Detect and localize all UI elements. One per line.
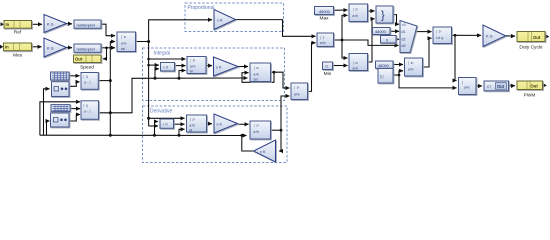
- svg-text:Integral: Integral: [154, 51, 171, 57]
- svg-text:a>b: a>b: [353, 14, 359, 18]
- svg-text:In: In: [5, 45, 9, 50]
- svg-text:⌠ z¹: ⌠ z¹: [436, 30, 441, 34]
- svg-text:d3: d3: [402, 44, 406, 48]
- svg-text:sel: sel: [121, 47, 125, 51]
- svg-text:a→□: a→□: [84, 81, 91, 85]
- svg-text:Out: Out: [497, 84, 505, 89]
- svg-text:⌠ z: ⌠ z: [320, 36, 325, 40]
- svg-text:a+b: a+b: [190, 124, 196, 128]
- svg-text:a+b: a+b: [190, 65, 196, 69]
- svg-text:K G: K G: [47, 23, 54, 27]
- svg-text:M: M: [190, 129, 193, 133]
- svg-text:sel: sel: [254, 78, 258, 82]
- svg-text:Out: Out: [533, 35, 541, 40]
- svg-text:PWM: PWM: [524, 93, 536, 99]
- svg-text:⌠ z¹: ⌠ z¹: [254, 124, 259, 128]
- svg-text:reinterpret: reinterpret: [77, 47, 96, 52]
- svg-text:d1: d1: [402, 30, 406, 34]
- svg-text:x K: x K: [216, 66, 222, 70]
- svg-text:Proportional: Proportional: [188, 5, 215, 11]
- svg-text:a>b: a>b: [121, 42, 127, 46]
- svg-text:⌠ z¹: ⌠ z¹: [190, 118, 195, 122]
- svg-text:⌠ z¹: ⌠ z¹: [121, 35, 126, 39]
- svg-text:⌠ q: ⌠ q: [83, 75, 88, 79]
- svg-text:Mes: Mes: [13, 53, 23, 59]
- svg-text:⌠ z¹: ⌠ z¹: [408, 61, 413, 65]
- svg-text:a+b: a+b: [294, 93, 300, 97]
- svg-text:K G: K G: [486, 35, 493, 39]
- svg-text:48000: 48000: [378, 63, 390, 68]
- svg-text:a>b: a>b: [408, 68, 414, 72]
- svg-text:⌠ z¹: ⌠ z¹: [294, 86, 299, 90]
- svg-text:Ref: Ref: [14, 30, 22, 36]
- svg-text:x K: x K: [260, 150, 266, 154]
- svg-text:C?: C?: [487, 85, 491, 89]
- svg-text:a+b: a+b: [254, 73, 260, 77]
- svg-text:Out: Out: [531, 83, 539, 88]
- svg-text:⌠ z¹: ⌠ z¹: [254, 66, 259, 70]
- svg-text:a>b: a>b: [464, 86, 470, 90]
- svg-text:x K: x K: [217, 123, 223, 127]
- svg-text:↗ rt: ↗ rt: [163, 66, 169, 70]
- svg-text:In: In: [6, 22, 10, 27]
- svg-text:⌠ z¹: ⌠ z¹: [190, 59, 195, 63]
- svg-text:⌠ z¹: ⌠ z¹: [353, 8, 358, 12]
- svg-text:48000: 48000: [319, 9, 331, 14]
- svg-text:⌠: ⌠: [462, 81, 464, 85]
- svg-text:x K: x K: [217, 19, 223, 23]
- svg-text:Out: Out: [75, 57, 83, 62]
- svg-text:⌠ z¹: ⌠ z¹: [353, 61, 358, 65]
- svg-text:[↕]: [↕]: [380, 75, 383, 79]
- svg-text:d2: d2: [402, 38, 406, 42]
- svg-text:1/z q: 1/z q: [436, 36, 443, 40]
- svg-text:K G: K G: [47, 47, 54, 51]
- svg-text:Duty Cycle: Duty Cycle: [519, 45, 543, 51]
- svg-text:a→□: a→□: [84, 110, 91, 114]
- svg-text:}: }: [381, 10, 385, 22]
- svg-text:a+b: a+b: [254, 130, 260, 134]
- svg-text:↗ rt: ↗ rt: [162, 123, 168, 127]
- svg-text:Min: Min: [324, 71, 332, 77]
- svg-text:a>b: a>b: [320, 41, 326, 45]
- svg-text:Max: Max: [319, 16, 329, 22]
- svg-text:Derivative: Derivative: [150, 109, 172, 115]
- svg-text:Speed: Speed: [80, 65, 94, 71]
- svg-text:⌠ q: ⌠ q: [83, 104, 88, 108]
- svg-text:M: M: [190, 70, 193, 74]
- svg-text:reinterpret: reinterpret: [77, 23, 96, 28]
- svg-text:>0: >0: [402, 23, 406, 27]
- svg-text:a>b: a>b: [353, 67, 359, 71]
- svg-text:48000: 48000: [375, 29, 387, 34]
